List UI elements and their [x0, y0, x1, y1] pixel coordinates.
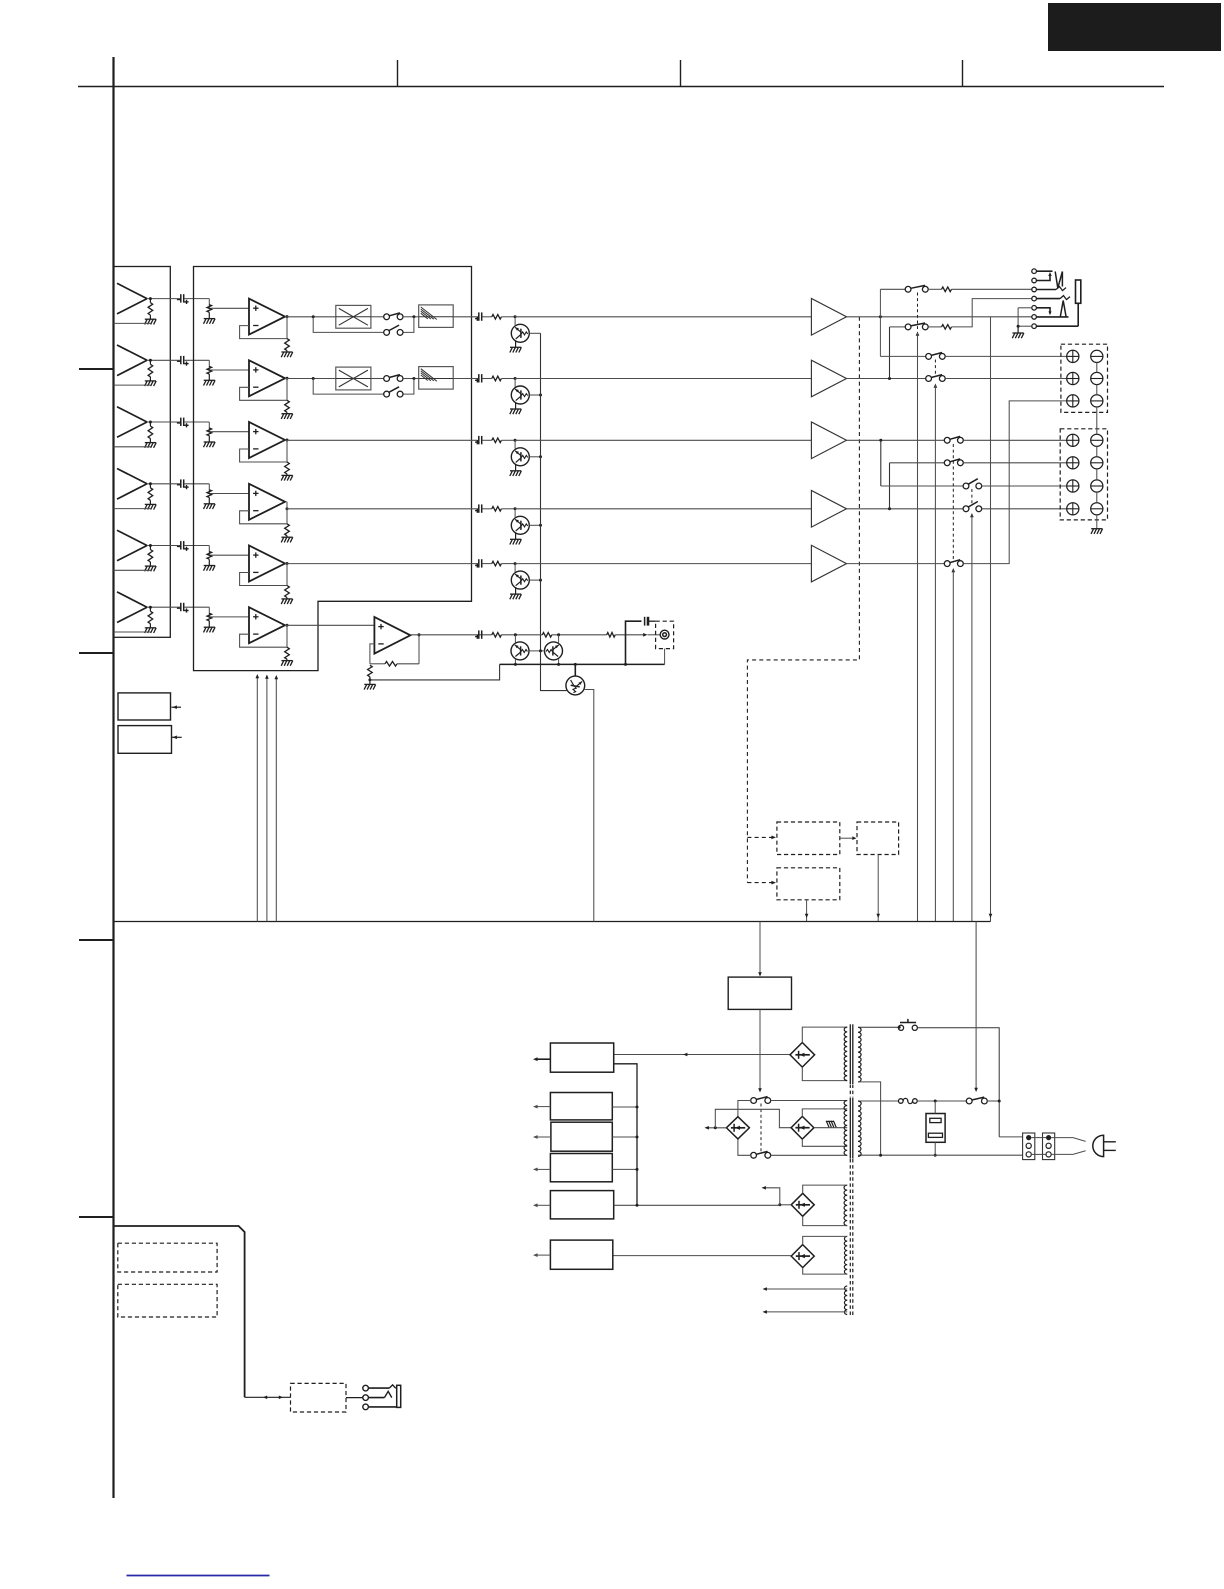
display box 1 [118, 1243, 217, 1272]
wire headphone detect [990, 317, 992, 922]
wire transistor Q4 chain [529, 524, 540, 526]
op-amp U3 [249, 422, 285, 458]
wire D1 top [802, 1027, 847, 1042]
wire subwoofer run [410, 634, 491, 636]
top tick mark 2 [680, 60, 682, 87]
wire return ch3 [114, 446, 151, 448]
wire bias stub ch3 [514, 440, 516, 448]
wire main run ch1 [515, 316, 811, 318]
op-amp U5 [249, 546, 285, 582]
transistor Q2 [511, 386, 529, 404]
wire U5 output run [285, 563, 478, 565]
wire tone bypass ch2 [313, 379, 384, 395]
capacitor coupling C1 [180, 294, 182, 302]
headphone jack lead 5 with arrow [1036, 308, 1050, 313]
node op-amp U5 output [286, 562, 289, 565]
wire C-SL-B relay control [952, 570, 954, 922]
plus sign U5 [253, 554, 258, 556]
wire regulator feed [614, 1054, 791, 1056]
ground transistor Q4 [510, 538, 521, 540]
ground transistor Q2 [510, 408, 521, 410]
regulator box B [550, 1093, 612, 1120]
display box 2 [118, 1284, 217, 1317]
wire feedback U2 [240, 378, 287, 400]
plus sign U4 [253, 492, 258, 494]
speaker terminal block A [1061, 344, 1108, 412]
resistor U7 ground leg [368, 665, 373, 677]
arrow headphone detect [989, 914, 993, 918]
remote jack lead 1 [368, 1387, 389, 1389]
wire headphone L to jack [952, 288, 1032, 290]
transformer T1 core [849, 1024, 851, 1084]
op-amp U6 [249, 607, 285, 643]
wire pole2 right [770, 1154, 847, 1156]
resistor op-amp U4 input [207, 490, 212, 498]
node varistor top [934, 1100, 937, 1103]
arrow FL-FR relay [934, 384, 938, 388]
wire PA3 output [847, 439, 945, 441]
wire T5 tap 1 arrow [767, 1288, 848, 1290]
wire control bus [114, 921, 991, 923]
wire transistor Q5 ground stub [515, 587, 517, 594]
node op-amp U4 output [286, 507, 289, 510]
ground feedback U6 [281, 660, 292, 662]
node regulator E [636, 1204, 639, 1207]
wire Q7-Q8 link [529, 650, 545, 652]
regulator box A [550, 1043, 613, 1072]
wire row SL [890, 462, 945, 464]
wire transistor Q3 chain [529, 456, 540, 458]
node volume in ch2 [312, 377, 315, 380]
wire transistor Q1 chain [529, 332, 540, 334]
wire coupling ch4 [184, 483, 209, 485]
ground feedback U3 [281, 474, 292, 476]
node D4 output [778, 1203, 781, 1206]
resistor buffer A4 load [149, 484, 151, 488]
wire U6 to subwoofer op-amp [285, 624, 374, 626]
wire D5 top [803, 1236, 848, 1244]
resistor feedback U6 [285, 647, 290, 659]
terminal plus A3 [1067, 395, 1079, 407]
resistor feedback U3 [285, 462, 290, 474]
node chain Q7Q8 [539, 649, 542, 652]
minus sign U6 [253, 633, 258, 635]
wire return ch5 [114, 569, 151, 571]
node buffer A3 output [149, 421, 152, 424]
wire coupling ch5 [184, 545, 209, 547]
arrow headphone relay [916, 332, 920, 336]
arrow output regulator box D [538, 1168, 551, 1170]
wire sub node1 [501, 634, 542, 636]
headphone jack contact 5 [1032, 306, 1037, 311]
node op-amp U2 output [286, 377, 289, 380]
wire PA3 branch vertical [880, 440, 882, 486]
terminal minus A2 [1091, 372, 1103, 384]
minus sign U1 [253, 325, 258, 327]
plus sign U2 [253, 369, 258, 371]
terminal minus B2 [1091, 457, 1103, 469]
ground op-amp U5 input [204, 565, 215, 567]
preamp box [194, 267, 472, 671]
arrow into box 2 [172, 736, 182, 738]
ground buffer A1 [145, 318, 156, 320]
transformer T1 secondary [858, 1027, 861, 1082]
wire fuse to relay [917, 1100, 966, 1102]
node Q7 emitter [514, 663, 517, 666]
left margin tick 4 [79, 1216, 114, 1218]
wire AC feed from bus [759, 922, 761, 973]
wire T1 secondary bottom [858, 1082, 881, 1155]
protection box 2 [777, 868, 840, 900]
capacitor output C11 [478, 312, 480, 320]
node surge absorber bottom [934, 1154, 937, 1157]
wire cap to resistor ch2 [482, 378, 492, 380]
wire resistor to node ch2 [501, 378, 515, 380]
wire control arrow 3 [275, 679, 277, 922]
resistor feedback U5 [285, 586, 290, 598]
wire transistor Q5 chain [529, 579, 540, 581]
AC inlet block 1 pin mid [1026, 1143, 1031, 1148]
minus sign U3 [253, 448, 258, 450]
node PA4 output [888, 507, 891, 510]
wire D2 output arrow [708, 1127, 727, 1129]
node regulator B [636, 1106, 639, 1109]
wire transistor Q3 ground stub [515, 464, 517, 471]
resistor headphone L [942, 287, 952, 292]
capacitor output C13 [478, 436, 480, 444]
fuse F1 [899, 1099, 904, 1104]
wire PA1 branch vertical [879, 289, 881, 356]
node tone in ch1 [412, 315, 415, 318]
wire return ch1 [114, 322, 151, 324]
arrow C-SL-B relay [952, 568, 956, 572]
wire SB to terminal [982, 508, 1067, 510]
wire emitter bus [500, 663, 665, 665]
wire D1 bottom [802, 1067, 847, 1081]
wire feedback U1 [240, 317, 287, 339]
resistor feedback U4 [285, 524, 290, 536]
arrow output regulator box B [538, 1106, 551, 1108]
thermal switch [898, 1025, 903, 1030]
ground transistor Q1 [510, 346, 521, 348]
resistor output R12 [492, 376, 502, 381]
wire return ch4 [114, 508, 151, 510]
arrow output regulator box C [538, 1136, 551, 1138]
node bias ch4 [514, 507, 517, 510]
dashed gang power switch [760, 1104, 762, 1152]
wire pole2 left [738, 1139, 751, 1155]
wire SL to terminal [963, 462, 1066, 464]
headphone jack contact 7 [1032, 324, 1037, 329]
terminal plus B4 [1067, 503, 1079, 515]
remote jack contact 1 [363, 1385, 369, 1391]
dashed gang headphone relay [917, 293, 919, 330]
op-amp U2 [249, 360, 285, 396]
node U7 ground leg [368, 678, 371, 681]
capacitor output C14 [478, 504, 480, 512]
switch power pole 2 [751, 1152, 757, 1158]
arrow output regulator box A [538, 1058, 551, 1060]
capacitor output C12 [478, 374, 480, 382]
headphone jack sleeve [1076, 280, 1081, 303]
wire U7 feedback [370, 644, 375, 664]
transistor Q9 [566, 676, 585, 695]
wire bias stub ch5 [514, 564, 516, 572]
ground buffer A6 [145, 627, 156, 629]
wire resistor to node ch4 [501, 508, 515, 510]
wire tone out ch1 [453, 316, 477, 318]
wire feedback U6 [240, 625, 287, 647]
ground buffer A5 [145, 565, 156, 567]
remote jack sleeve [397, 1385, 401, 1407]
headphone jack contact 4 [1032, 296, 1037, 301]
wire volume to switch ch2 [371, 378, 384, 380]
wire mains neutral row [858, 1154, 1023, 1156]
switch headphone L [905, 286, 911, 292]
wire inlet to plug top [1051, 1138, 1085, 1142]
minus sign U7 [378, 643, 383, 645]
power amplifier PA1 [811, 299, 846, 336]
wire control arrow 2 [266, 679, 268, 922]
resistor op-amp U3 input [207, 428, 212, 436]
wire headphone row R [890, 326, 906, 328]
AC inlet block 1 pin neutral [1026, 1152, 1031, 1157]
node bias ch3 [514, 439, 517, 442]
ground headphone jack [1017, 326, 1019, 333]
wire buffer A6 output [147, 606, 180, 608]
wire terminal minus bus [1096, 363, 1098, 373]
ground buffer A4 [145, 503, 156, 505]
headphone jack lead 3 spring [1036, 289, 1056, 291]
tone control block ch2 [419, 367, 454, 390]
resistor subwoofer R22 [542, 633, 552, 638]
wire Q9 to control bus [584, 690, 594, 922]
relay speaker SB [963, 506, 969, 512]
AC inlet block 2 [1043, 1133, 1055, 1160]
wire remote link [245, 1396, 291, 1398]
switch tone-direct lower ch1 [384, 330, 390, 336]
wire headphone row L [880, 288, 905, 290]
transformer T5 winding [844, 1286, 847, 1315]
node jack ground [1017, 325, 1020, 328]
ground op-amp U4 input [204, 503, 215, 505]
ground buffer A2 [145, 380, 156, 382]
wire coupling ch2 [184, 359, 209, 361]
wire PA4 output [847, 508, 964, 510]
wire relay to node [987, 1100, 999, 1102]
bridge rectifier D3 [791, 1116, 814, 1139]
node buffer A4 output [149, 482, 152, 485]
wire mains live to inlet [999, 1136, 1022, 1138]
wire feedback U4 [240, 502, 287, 524]
wire regulator E out [614, 1204, 780, 1206]
dashed protect branch arrow 2 [747, 882, 771, 884]
node chain ch4 [539, 524, 542, 527]
wire T5 tap 2 arrow [767, 1311, 848, 1313]
RCA subwoofer jack box [656, 621, 674, 648]
wire coupling ch3 [184, 421, 209, 423]
transistor Q8 stub [558, 635, 560, 643]
node chain ch3 [539, 455, 542, 458]
wire cap riser [626, 621, 642, 664]
resistor buffer A3 load [149, 422, 151, 426]
wire D2 to D3 [715, 1109, 791, 1128]
AC plug [1093, 1135, 1104, 1156]
plus sign U7 [378, 626, 383, 628]
speaker terminal block B [1060, 429, 1107, 520]
ground op-amp U3 input [204, 441, 215, 443]
chassis ground center tap [826, 1121, 829, 1127]
wire main run ch5 [515, 563, 811, 565]
node buffer A6 output [149, 606, 152, 609]
op-amp U4 [249, 484, 285, 520]
dashed protect branch arrow 1 [747, 836, 771, 838]
node relay out [998, 1100, 1001, 1103]
wire inlet link bottom [1031, 1153, 1046, 1155]
input buffer A6 [117, 592, 147, 607]
resistor output R14 [492, 507, 502, 512]
node PA2 output [888, 377, 891, 380]
wire terminal ground stub [1096, 515, 1098, 529]
dashed gang FL-FR relay [934, 360, 936, 376]
headphone jack tip spring [1055, 272, 1062, 289]
transformer core dashes [849, 1085, 851, 1098]
wire buffer A5 output [147, 545, 180, 547]
wire buffer A2 output [147, 359, 180, 361]
headphone jack lead 4 spring [1036, 298, 1060, 300]
ground transistor Q5 [510, 593, 521, 595]
wire switch to tone ch2 [403, 378, 419, 380]
plus sign U6 [253, 616, 258, 618]
left margin tick 3 [79, 939, 114, 941]
arrow into box 1 [172, 706, 182, 708]
node PA3 output [879, 439, 882, 442]
node chain ch2 [539, 394, 542, 397]
wire protection box2 down [806, 900, 808, 922]
node sub Q8 [557, 633, 560, 636]
system control box 2 [118, 726, 172, 754]
switch tone-direct upper ch1 [384, 314, 390, 320]
input buffer A1 [117, 283, 147, 298]
minus sign U2 [253, 386, 258, 388]
wire inlet link top [1031, 1137, 1046, 1139]
wire switch to resistor R [928, 326, 941, 328]
remote jack lead 3 [368, 1406, 396, 1408]
wire return ch6 [114, 631, 151, 633]
capacitor coupling C3 [180, 418, 182, 426]
wire op-amp U6 input [208, 607, 210, 617]
wire U2 to volume [285, 378, 336, 380]
terminal minus A1 [1091, 350, 1103, 362]
wire jack ground [1018, 307, 1032, 309]
wire headphone relay control [917, 333, 919, 922]
wire U4 output run [287, 508, 478, 510]
wire power relay control [975, 922, 977, 1089]
headphone jack ring spring [1060, 301, 1066, 317]
wire D4 aux arrow [766, 1188, 780, 1205]
wire regulator C out [612, 1136, 637, 1138]
switch tone-direct upper ch2 [384, 376, 390, 382]
remote control box [291, 1383, 347, 1412]
transformer T2 core [849, 1098, 851, 1159]
wire feedback U3 [240, 440, 287, 462]
headphone jack lead 6 [1036, 316, 1068, 318]
AC inlet block 2 pin live [1046, 1135, 1051, 1140]
relay power [966, 1098, 972, 1104]
input buffer box [114, 267, 171, 638]
relay speaker SL [944, 460, 950, 466]
headphone jack contact 3 [1032, 287, 1037, 292]
ground feedback U4 [281, 536, 292, 538]
RCA subwoofer connector [660, 630, 669, 639]
wire protection box3 down [877, 855, 879, 922]
headphone jack contact 6 [1032, 315, 1037, 320]
wire D4 output [780, 1204, 791, 1206]
bridge rectifier D1 [790, 1043, 815, 1068]
node regulator D [636, 1168, 639, 1171]
transistor Q7 stub [514, 635, 516, 643]
resistor op-amp U2 input [207, 366, 212, 374]
tone control block ch1 [419, 305, 454, 328]
wire surge absorber top [934, 1101, 936, 1114]
power amplifier PA3 [811, 422, 846, 459]
headphone jack contact 2 [1032, 278, 1037, 283]
wire U1 to volume [285, 316, 336, 318]
wire PA1 output [847, 316, 1032, 318]
regulator box F [550, 1240, 612, 1269]
node bus cap riser [624, 663, 627, 666]
ground feedback U5 [281, 598, 292, 600]
wire PA2 output [847, 378, 926, 380]
wire inlet to plug bottom [1051, 1151, 1085, 1155]
resistor buffer A2 load [149, 360, 151, 364]
wire resistor to node ch5 [501, 563, 515, 565]
transformer T3 winding [844, 1185, 847, 1226]
relay speaker SR [963, 483, 969, 489]
op-amp U1 [249, 299, 285, 335]
wire cap to resistor ch4 [482, 508, 492, 510]
wire remote box to jack [346, 1397, 363, 1399]
wire D5 bottom [803, 1268, 848, 1275]
remote jack contact 3 [363, 1404, 369, 1410]
resistor subwoofer R21 [492, 633, 502, 638]
wire resistor to node ch1 [501, 316, 515, 318]
wire bias stub ch2 [514, 379, 516, 387]
wire Q7 emitter [514, 659, 516, 664]
ground op-amp U6 input [204, 626, 215, 628]
electronic volume block ch1 [336, 305, 371, 328]
wire cap to resistor ch5 [482, 563, 492, 565]
terminal plus B1 [1067, 434, 1079, 446]
input buffer A5 [117, 530, 147, 545]
terminal minus B4 [1091, 503, 1103, 515]
headphone jack contact 1 [1032, 269, 1037, 274]
wire headphone R to jack [952, 299, 1032, 327]
resistor subwoofer R23 [607, 633, 616, 638]
protection box 3 [857, 822, 899, 855]
transistor Q3 [511, 448, 529, 466]
regulator box C [551, 1122, 612, 1151]
node buffer A2 output [149, 359, 152, 362]
switch tone-direct lower ch2 [384, 391, 390, 397]
terminal plus A1 [1067, 350, 1079, 362]
transistor Q4 [511, 516, 529, 534]
node op-amp U1 output [286, 315, 289, 318]
wire thermal switch run [917, 1028, 999, 1137]
AC inlet block 1 [1023, 1133, 1035, 1160]
node PA1 output [879, 315, 882, 318]
wire PA4 branch vertical [889, 463, 891, 509]
